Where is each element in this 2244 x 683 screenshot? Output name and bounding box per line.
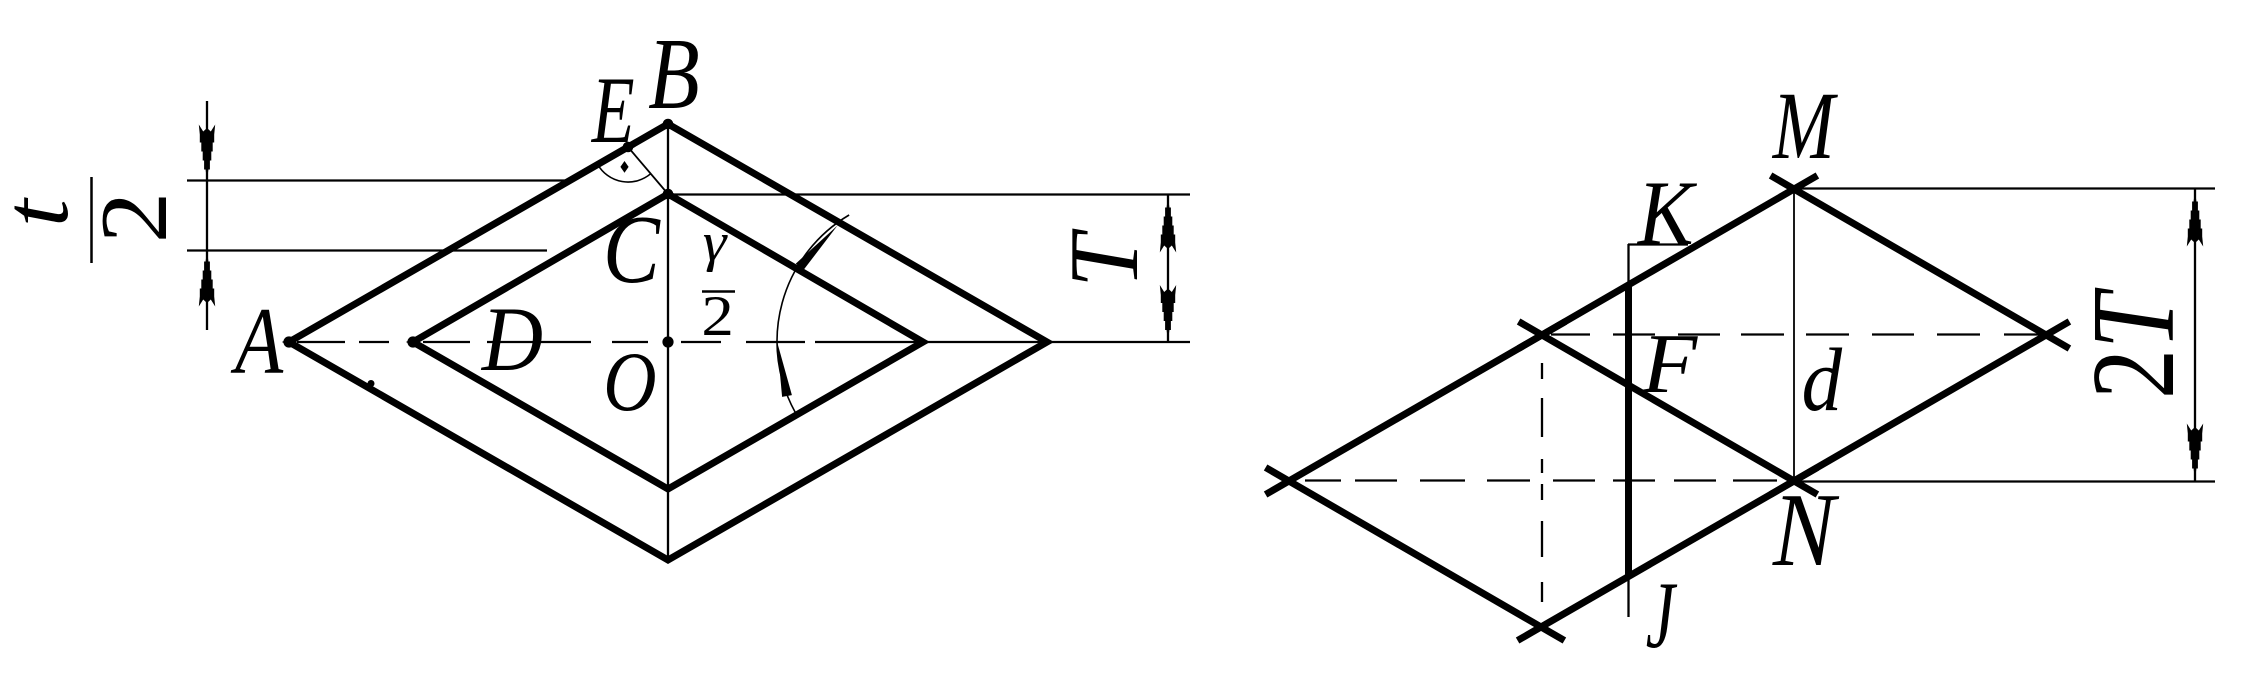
T upper arrow bbox=[1160, 197, 1176, 253]
vertical axis through B O bbox=[667, 124, 669, 560]
point dots A D O B C E and edge tick bbox=[283, 336, 294, 347]
svg-text:2: 2 bbox=[701, 286, 734, 348]
t/2 dimension line bbox=[206, 101, 208, 330]
svg-text:D: D bbox=[481, 289, 543, 391]
svg-text:E: E bbox=[591, 58, 635, 164]
dashed horizontal diagonal upper rhombus bbox=[1551, 333, 2044, 335]
svg-text:K: K bbox=[1636, 163, 1698, 265]
dashed centre line A to right vertex with solid extension bbox=[297, 341, 1190, 343]
svg-text:d: d bbox=[1802, 330, 1843, 430]
svg-text:J: J bbox=[1646, 562, 1678, 668]
svg-text:A: A bbox=[230, 288, 283, 394]
T lower arrow bbox=[1160, 285, 1176, 341]
svg-text:F: F bbox=[1641, 317, 1699, 411]
shared edge N-L bbox=[1519, 322, 1818, 495]
upper rhombus edge L-M bbox=[1519, 176, 1818, 349]
2T lower extension line bbox=[1794, 480, 2215, 482]
dashed vertical diagonal lower rhombus bbox=[1541, 363, 1543, 602]
lower rhombus edge L2-bottom bbox=[1266, 468, 1565, 641]
svg-text:γ: γ bbox=[703, 213, 728, 273]
upper extension line t/2 bbox=[187, 179, 570, 181]
svg-text:N: N bbox=[1772, 473, 1840, 588]
t/2 lower arrow bbox=[199, 251, 215, 307]
upper rhombus edge R-N bbox=[1771, 322, 2070, 495]
short line under K label bbox=[1628, 243, 1688, 245]
svg-text:C: C bbox=[603, 196, 661, 303]
right-angle diamond at E bbox=[620, 161, 628, 173]
outer rhombus A-B-right-bottom bbox=[289, 124, 1047, 560]
2T upper arrow bbox=[2187, 191, 2203, 247]
inner rhombus D-C-right-bottom bbox=[413, 194, 923, 489]
thick chord K-J bbox=[1625, 284, 1632, 575]
upper rhombus edge M-R bbox=[1771, 176, 2070, 349]
svg-text:2: 2 bbox=[82, 192, 187, 243]
svg-text:B: B bbox=[648, 19, 700, 131]
thin extension above K bbox=[1627, 244, 1629, 284]
lower rhombus edge bottom-N bbox=[1518, 468, 1818, 641]
2T upper extension line bbox=[1800, 187, 2215, 189]
svg-text:t: t bbox=[0, 197, 87, 227]
svg-text:M: M bbox=[1771, 72, 1838, 180]
gamma arc lower arrowhead bbox=[777, 342, 792, 397]
2T lower arrow bbox=[2187, 424, 2203, 480]
horizontal extension line from C bbox=[668, 193, 1190, 195]
T dimension line bbox=[1167, 195, 1169, 343]
svg-text:T: T bbox=[1050, 228, 1159, 287]
2T dimension line bbox=[2194, 189, 2196, 482]
svg-text:O: O bbox=[603, 335, 656, 429]
svg-text:2T: 2T bbox=[2067, 287, 2199, 399]
t/2 upper arrow bbox=[199, 125, 215, 181]
lower extension line t/2 bbox=[187, 249, 547, 251]
thin vertical M-N (d line) bbox=[1793, 189, 1795, 481]
t/2 fraction bar bbox=[90, 177, 93, 263]
right-angle arc at E bbox=[598, 165, 651, 183]
lower rhombus edge L2-top bbox=[1266, 322, 1566, 495]
gamma arc upper arrowhead bbox=[796, 226, 838, 271]
dashed horizontal diagonal lower rhombus bbox=[1305, 479, 1777, 481]
thin segment E-C bbox=[628, 147, 668, 194]
gamma/2 fraction bar bbox=[702, 290, 735, 293]
thin extension below J bbox=[1627, 575, 1629, 617]
gamma/2 angle arc bbox=[777, 215, 849, 412]
